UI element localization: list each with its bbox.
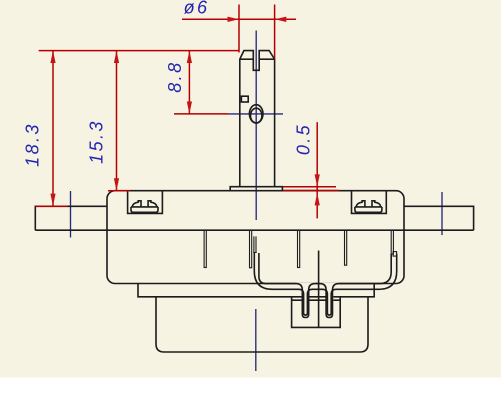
svg-text:15.3: 15.3 (86, 119, 106, 164)
svg-text:0.5: 0.5 (293, 123, 313, 155)
svg-text:ø6: ø6 (184, 0, 210, 18)
svg-text:18.3: 18.3 (23, 122, 43, 167)
svg-text:8.8: 8.8 (165, 60, 185, 92)
